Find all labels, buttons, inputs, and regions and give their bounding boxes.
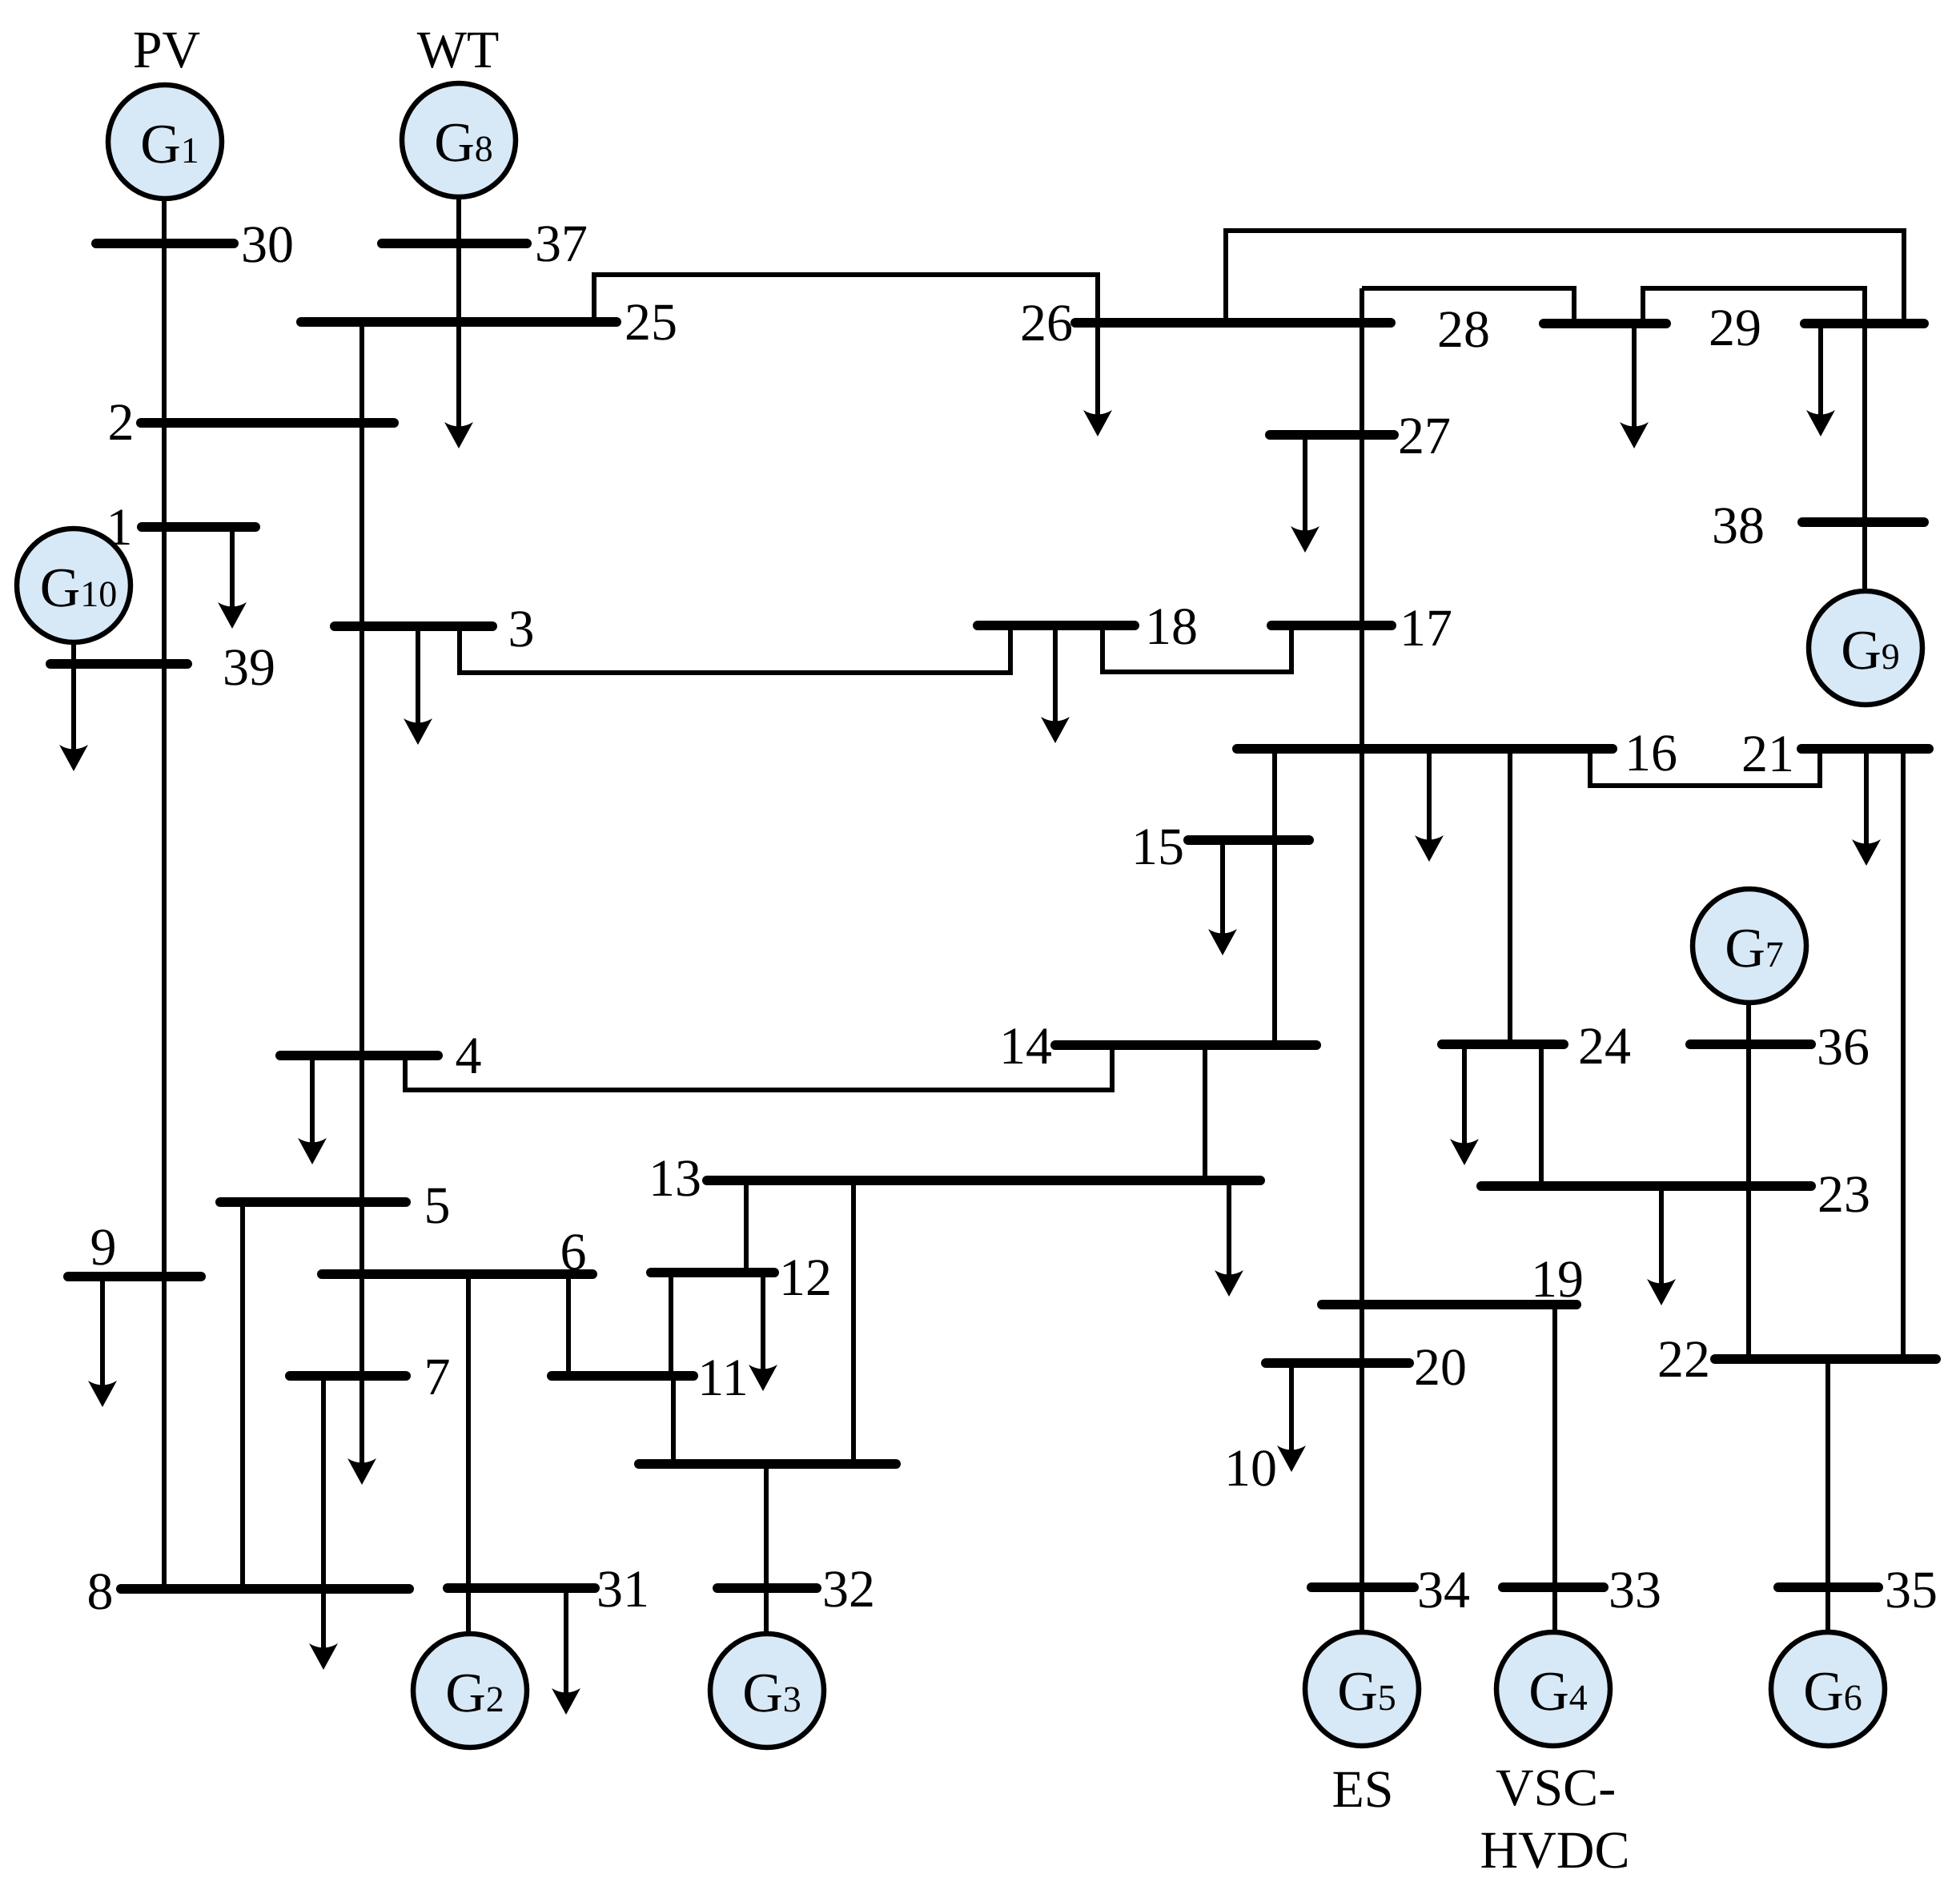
svg-text:ES: ES	[1331, 1760, 1393, 1819]
svg-text:28: 28	[1437, 300, 1490, 359]
wire bus 25 to bus 2 to bus 3 to bus 4 to bus 5 to bus 6	[359, 321, 364, 1274]
bus 30 bar	[96, 239, 234, 248]
svg-text:9: 9	[90, 1218, 117, 1277]
wire bus 13 to bus 10	[851, 1180, 856, 1464]
load arrow bus 21	[1852, 750, 1881, 866]
svg-text:16: 16	[1625, 724, 1677, 782]
load arrow bus 18	[1041, 625, 1070, 743]
wire bus 25 to bus 26	[594, 275, 1098, 323]
wire bus 28 to bus 27 junction	[1362, 288, 1574, 324]
bus 37 bar	[382, 239, 527, 248]
generator G9	[1809, 591, 1922, 705]
svg-text:39: 39	[223, 638, 275, 697]
svg-text:17: 17	[1400, 599, 1452, 657]
bus 39 bar	[50, 659, 187, 669]
svg-text:32: 32	[822, 1560, 875, 1619]
load arrow bus 8	[309, 1376, 338, 1670]
svg-text:20: 20	[1414, 1338, 1467, 1397]
bus 9 bar	[68, 1272, 201, 1281]
generator G10	[17, 529, 131, 642]
generator G2	[413, 1634, 527, 1747]
wire bus 12 to bus 11	[669, 1273, 673, 1376]
generator G7	[1693, 889, 1806, 1003]
bus 8 bar	[121, 1584, 409, 1594]
bus 21 bar	[1801, 744, 1929, 754]
wire bus 26 to bus 29	[1226, 231, 1904, 324]
wire bus 16 to bus 24	[1508, 750, 1512, 1044]
bus 13 bar	[707, 1176, 1260, 1185]
bus 5 bar	[220, 1197, 406, 1207]
bus 19 bar	[1322, 1300, 1576, 1309]
load arrow bus 25	[444, 321, 473, 448]
load arrow bus 1	[218, 527, 247, 629]
bus 38 bar	[1802, 517, 1924, 527]
load arrow bus 16	[1415, 750, 1444, 862]
bus 28 bar	[1544, 319, 1666, 328]
bus 23 bar	[1481, 1181, 1811, 1191]
bus 6 bar	[322, 1269, 592, 1279]
svg-text:27: 27	[1398, 407, 1451, 465]
wire bus 24 to bus 23	[1539, 1044, 1544, 1186]
wire bus 14 to bus 13	[1203, 1045, 1207, 1180]
wire G1 to bus 30 to bus 2 to bus 1 to bus 39 to bus 9 to bus 8	[162, 198, 167, 1589]
svg-text:33: 33	[1609, 1561, 1661, 1619]
bus 26 bar	[1075, 318, 1391, 328]
svg-text:22: 22	[1657, 1330, 1710, 1389]
wire bus 26 to bus 27 to bus 17 to bus 16 to bus 19 to bus 20 to bus 34 to G5	[1360, 288, 1364, 1634]
wire bus 11 to bus 10	[671, 1376, 676, 1464]
load arrow bus 3	[404, 626, 432, 745]
svg-text:PV: PV	[133, 21, 200, 79]
svg-text:WT: WT	[417, 21, 500, 79]
bus 25 bar	[301, 317, 617, 327]
bus 22 bar	[1715, 1354, 1936, 1364]
svg-text:11: 11	[697, 1349, 749, 1407]
wire bus 3 to bus 18	[460, 625, 1010, 673]
svg-text:35: 35	[1885, 1561, 1938, 1619]
svg-text:2: 2	[108, 393, 135, 452]
load arrow bus 27	[1291, 435, 1319, 553]
svg-text:HVDC: HVDC	[1480, 1821, 1629, 1880]
svg-text:29: 29	[1709, 299, 1761, 357]
svg-text:VSC-: VSC-	[1496, 1759, 1616, 1817]
svg-text:30: 30	[241, 215, 294, 274]
svg-text:12: 12	[779, 1249, 832, 1307]
bus 24 bar	[1442, 1040, 1564, 1049]
svg-text:6: 6	[560, 1223, 587, 1281]
svg-text:31: 31	[596, 1560, 649, 1619]
svg-text:36: 36	[1817, 1018, 1870, 1076]
load arrow bus 9	[88, 1277, 117, 1407]
svg-text:3: 3	[508, 600, 535, 658]
bus 3 bar	[335, 621, 492, 631]
wire bus 6 to bus 31 to G2	[466, 1274, 471, 1635]
wire G7 to bus 36 to bus 23 to bus 22	[1746, 1002, 1751, 1359]
svg-text:10: 10	[1224, 1439, 1277, 1498]
bus 35 bar	[1778, 1582, 1878, 1592]
load arrow bus 7	[347, 1274, 376, 1485]
load arrow bus 20	[1277, 1363, 1306, 1472]
svg-text:38: 38	[1712, 497, 1765, 555]
svg-text:19: 19	[1531, 1250, 1584, 1309]
wire G8 to bus 37 to bus 25	[456, 196, 461, 321]
svg-text:8: 8	[87, 1562, 114, 1621]
svg-text:14: 14	[999, 1017, 1052, 1076]
bus 36 bar	[1690, 1040, 1811, 1049]
bus 33 bar	[1503, 1582, 1604, 1592]
svg-text:15: 15	[1131, 818, 1184, 876]
svg-text:7: 7	[424, 1348, 451, 1406]
wire bus 4 to bus 14	[405, 1045, 1112, 1090]
wire bus 16 to bus 15 to bus 14	[1272, 750, 1277, 1045]
bus 4 bar	[280, 1051, 438, 1060]
load arrow bus 15	[1208, 840, 1237, 955]
bus 27 bar	[1270, 430, 1394, 440]
load arrow bus 39	[59, 664, 88, 771]
wire G10 to bus 39	[71, 641, 76, 664]
svg-text:21: 21	[1741, 725, 1794, 783]
load arrow bus 31	[552, 1588, 580, 1715]
wire bus 19 to bus 33 to G4	[1552, 1305, 1557, 1634]
generator G3	[710, 1634, 824, 1747]
load arrow bus 24	[1450, 1044, 1479, 1165]
bus 15 bar	[1188, 835, 1309, 845]
bus 7 bar	[290, 1371, 406, 1381]
bus 17 bar	[1271, 621, 1392, 630]
bus 32 bar	[717, 1583, 817, 1593]
generator G5	[1305, 1632, 1419, 1746]
wire bus 6 to bus 11	[566, 1274, 571, 1376]
bus 1 bar	[142, 522, 255, 532]
svg-text:26: 26	[1020, 294, 1073, 352]
bus 10 bar	[639, 1459, 896, 1469]
wire bus 5 to bus 8	[240, 1202, 245, 1589]
load arrow bus 13	[1215, 1180, 1243, 1297]
bus 16 bar	[1237, 744, 1613, 754]
bus 12 bar	[651, 1268, 774, 1277]
bus 2 bar	[141, 418, 394, 428]
bus 29 bar	[1805, 319, 1924, 328]
bus 11 bar	[552, 1371, 693, 1381]
svg-text:24: 24	[1578, 1017, 1631, 1076]
wire bus 22 to bus 35 to G6	[1825, 1359, 1830, 1634]
svg-text:5: 5	[424, 1176, 451, 1235]
load arrow bus 23	[1647, 1186, 1676, 1305]
bus 14 bar	[1055, 1040, 1316, 1050]
svg-text:25: 25	[625, 293, 677, 352]
bus 20 bar	[1266, 1358, 1409, 1368]
svg-text:23: 23	[1817, 1165, 1870, 1224]
load arrow bus 28	[1620, 324, 1649, 448]
generator G4	[1496, 1632, 1610, 1746]
bus 31 bar	[448, 1583, 595, 1593]
generator G8	[402, 83, 516, 197]
svg-text:18: 18	[1145, 597, 1198, 656]
generator G1	[108, 85, 222, 199]
svg-text:34: 34	[1417, 1561, 1470, 1619]
wire bus 16 to bus 21	[1590, 749, 1820, 786]
bus 18 bar	[978, 621, 1135, 630]
load arrow bus 12	[749, 1273, 777, 1391]
load arrow bus 4	[298, 1056, 327, 1164]
svg-text:37: 37	[535, 215, 588, 273]
wire bus 18 to bus 17	[1102, 625, 1291, 672]
bus 34 bar	[1311, 1582, 1414, 1592]
wire bus 28 to bus 29	[1643, 288, 1865, 324]
wire bus 21 to bus 22	[1901, 750, 1906, 1359]
wire bus 13 to bus 12	[744, 1180, 749, 1273]
wire bus 29 to bus 38 to G9	[1862, 324, 1867, 593]
generator G6	[1771, 1632, 1885, 1746]
load arrow bus 26	[1083, 323, 1112, 436]
svg-text:13: 13	[649, 1149, 701, 1208]
wire bus 10 to bus 32 to G3	[764, 1464, 769, 1635]
svg-text:4: 4	[456, 1027, 482, 1085]
load arrow bus 29	[1806, 324, 1835, 436]
